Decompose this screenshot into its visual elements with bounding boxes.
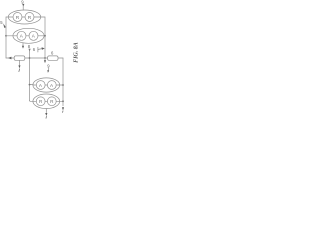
svg-text:6: 6 <box>33 47 36 52</box>
junction dot bus/mid <box>29 57 31 59</box>
arrowhead on bus (left) <box>8 57 11 60</box>
wire segments inside E3 <box>33 84 60 86</box>
wire segments inside E4 <box>33 100 60 102</box>
wire E1 right to right bus <box>41 17 45 58</box>
transistor circle Q1 <box>13 13 22 22</box>
transistor circle Q5 <box>36 81 45 90</box>
ellipse group E2 (A-A pair) <box>13 28 44 43</box>
wire right bus vertical <box>62 58 64 106</box>
transistor circle Q7 <box>36 97 45 106</box>
wire stub below B1 with arrow <box>18 60 20 65</box>
wire E2 bottom stub with arrow <box>22 43 24 46</box>
svg-text:R: R <box>16 15 20 21</box>
ellipse group E1 (R-R pair) <box>8 10 41 24</box>
ellipse group E4 (R-R pair) <box>33 94 60 109</box>
resistor box B2 <box>48 56 58 60</box>
junction dot left bus / E2 <box>5 35 7 37</box>
wire mid bus vertical <box>29 49 31 100</box>
junction dot bus/right-link <box>44 57 46 59</box>
wire stub below junction with arrow <box>44 58 46 60</box>
transistor circle Q3 <box>17 31 26 40</box>
junction dot mid bus/E3 <box>29 84 31 86</box>
wire E1 left to left bus <box>6 17 8 58</box>
ellipse group E3 (A-A pair) <box>33 78 60 92</box>
node label 9 with leader <box>47 63 50 72</box>
junction dot E3/right bus <box>62 84 64 86</box>
arrowhead right bus bottom <box>62 107 64 110</box>
node label 9 (top terminal) <box>21 0 24 6</box>
junction dot E2 right / bus <box>44 35 46 37</box>
wire top input stub <box>22 6 24 11</box>
svg-text:5: 5 <box>0 20 3 25</box>
wire E4 bottom stub with arrow <box>45 109 47 113</box>
svg-text:6: 6 <box>51 51 54 56</box>
svg-text:FIG. 8A: FIG. 8A <box>74 42 80 63</box>
transistor circle Q6 <box>47 81 56 90</box>
wire E3 right stub <box>60 84 63 86</box>
transistor circle Q2 <box>25 13 34 22</box>
wire segments inside E1 <box>8 16 41 18</box>
transistor circle Q4 <box>29 31 38 40</box>
wire mid bus corner into E4 <box>30 100 34 101</box>
wire E4 right stub <box>60 100 63 102</box>
svg-text:R: R <box>28 15 32 21</box>
wire horizontal bus <box>6 57 63 59</box>
svg-text:9: 9 <box>47 63 50 68</box>
resistor box B1 <box>14 56 25 60</box>
wire left bus to E2 <box>6 35 13 37</box>
svg-text:8: 8 <box>28 44 31 49</box>
transistor circle Q8 <box>47 97 56 106</box>
junction dot E4/right bus <box>62 100 64 102</box>
node label 5 (left leader) <box>0 20 6 28</box>
arrowhead below label 8 <box>29 49 31 52</box>
wire mid bus to E3 <box>30 84 34 86</box>
wire segments inside E2 <box>13 35 44 37</box>
node label 6 with leader arrow <box>33 47 45 52</box>
